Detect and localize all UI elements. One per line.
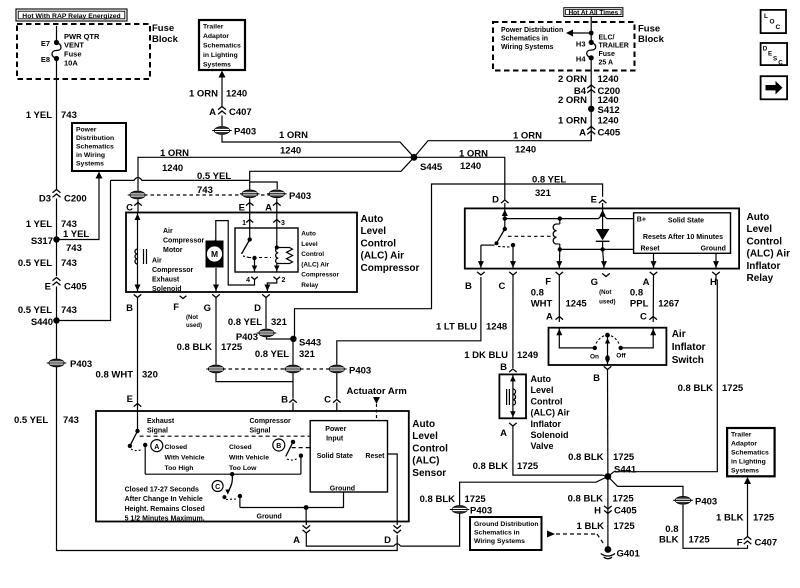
wire: fuse H4 down to 1 ORN bus corner [590, 58, 592, 141]
wire: 0.8 YEL 321 compressor D to P403 [265, 298, 267, 329]
reference arrow to power distribution (top-right) [566, 30, 591, 37]
svg-text:Air: Air [152, 258, 162, 265]
reference box: Trailer Adaptor Schematics in Lighting Systems (right) [727, 428, 775, 476]
svg-text:ELC/: ELC/ [599, 35, 615, 42]
value label 0.8 BLK 1725 (pin G) [177, 342, 243, 353]
svg-text:Air: Air [672, 329, 686, 340]
solid state box (inner, inflator relay) [634, 213, 731, 254]
svg-text:(Not: (Not [186, 315, 198, 321]
svg-text:Power Distribution: Power Distribution [501, 27, 563, 34]
wire arrow: 1 BLK 1725 to trailer adaptor reference [744, 477, 751, 537]
svg-text:A: A [546, 312, 553, 323]
splice P403 on sensor ground riser [450, 506, 492, 517]
value label 2 ORN 1240 (y99) [558, 95, 619, 106]
wire: sensor B column oval to sensor pin B [292, 374, 294, 399]
switch pin B (bottom) [593, 366, 611, 384]
svg-text:L: L [764, 13, 768, 20]
svg-text:Systems: Systems [731, 468, 759, 475]
label Closed With Vehicle Too High [165, 444, 205, 472]
value label 0.8 YEL 321 (S443 to sensor) [255, 349, 316, 360]
component box: ALC Air Inflator Solenoid Valve [499, 374, 526, 418]
actuator arm (dashed mechanical input) [347, 386, 407, 421]
svg-text:C: C [126, 203, 133, 214]
svg-text:Relay: Relay [747, 273, 774, 284]
sensor pin B (top) [281, 395, 297, 412]
label Auto Level Control (ALC) Sensor (outer) [412, 419, 448, 479]
svg-text:VENT: VENT [64, 41, 84, 50]
connector C200 pin D3 (left column) [39, 190, 87, 205]
svg-text:E: E [45, 282, 51, 293]
relay pin E (top) [591, 195, 607, 209]
inflator relay contact arm [481, 227, 515, 248]
svg-text:1725: 1725 [517, 461, 539, 472]
svg-text:1 BLK: 1 BLK [716, 513, 744, 524]
value label 2 ORN 1240 (y78) [558, 74, 619, 85]
node S445 [411, 154, 443, 173]
valve pin B (top) [500, 362, 517, 373]
svg-text:Signal: Signal [147, 428, 168, 435]
svg-text:WHT: WHT [531, 299, 553, 310]
node S317 [31, 236, 60, 247]
svg-text:P403: P403 [289, 191, 311, 202]
fuse block (dashed) top-left [17, 24, 150, 79]
svg-text:Trailer: Trailer [203, 24, 224, 31]
svg-text:H3: H3 [576, 40, 586, 49]
label Fuse Block (top-right) [638, 24, 665, 46]
icon box arrow (next page) [761, 76, 788, 99]
reference box: Ground Distribution Schematics in Wiring Systems [470, 517, 542, 550]
compressor pin G (bottom) [204, 294, 220, 314]
label Ground (solid state) [330, 486, 355, 493]
svg-text:P403: P403 [695, 497, 717, 508]
relay contact arm (compressor relay) [242, 228, 257, 260]
wire: 0.5 YEL rise into S445 from E column [250, 157, 414, 190]
icon box LOC [761, 10, 786, 33]
svg-text:A: A [643, 277, 650, 288]
switch pin C (air inflator switch) [640, 312, 657, 323]
svg-text:C: C [215, 484, 220, 491]
svg-text:A: A [154, 444, 159, 451]
dashed mechanical link (actuator to switches, upper) [140, 435, 311, 437]
splice P403 (trailer ground) [673, 496, 717, 507]
relay mechanical link (dashed) [248, 257, 271, 259]
svg-text:Schematics: Schematics [731, 450, 769, 457]
splice P403 oval on pin E column [240, 190, 260, 198]
svg-text:A: A [209, 107, 216, 118]
label Air Compressor Motor [163, 228, 205, 254]
svg-text:P403: P403 [470, 506, 492, 517]
svg-text:C: C [324, 395, 331, 406]
svg-text:1 ORN: 1 ORN [160, 148, 189, 159]
label Fuse Block (top-left) [152, 23, 179, 45]
svg-text:2 ORN: 2 ORN [558, 95, 587, 106]
svg-text:1725: 1725 [689, 535, 711, 546]
connector C407 pin A (top middle) [209, 107, 252, 119]
value label 0.8 YEL 321 (pin D) [228, 317, 288, 328]
value label 1 YEL 743 (y111) [26, 110, 77, 121]
label Resets After 10 Minutes [643, 233, 723, 241]
wire: relay pin B drop [478, 245, 484, 269]
wire: P403 to S443 [267, 338, 294, 340]
svg-text:Hot At All Times: Hot At All Times [568, 10, 618, 17]
svg-text:A: A [500, 428, 507, 439]
svg-text:1267: 1267 [658, 299, 679, 310]
svg-text:5 1/2 Minutes Maximum.: 5 1/2 Minutes Maximum. [125, 516, 205, 523]
svg-text:Actuator Arm: Actuator Arm [347, 386, 407, 397]
inflator relay pin G (bottom, not used) [591, 273, 616, 305]
svg-text:0.5 YEL: 0.5 YEL [18, 258, 52, 269]
wire: reset to pin D (inside sensor) [388, 454, 398, 522]
svg-text:0.8 BLK: 0.8 BLK [177, 342, 213, 353]
splice P403 (top middle) [212, 127, 256, 138]
value label 1 DK BLU 1249 [464, 350, 538, 361]
svg-text:743: 743 [61, 305, 77, 316]
wire: relay pin F drop [556, 249, 562, 268]
wire: motor top loop to relay pin 4 [215, 221, 255, 285]
svg-text:Control: Control [531, 396, 563, 406]
svg-text:Level: Level [301, 241, 318, 248]
wire: switch C to ground bus [239, 496, 241, 507]
value label 1 ORN 1240 (on y142 bus) [279, 130, 308, 157]
wire: S440 down through P403 to sensor pin D net [57, 321, 398, 551]
svg-text:Schematics in: Schematics in [501, 36, 548, 43]
splice P403 oval on pin A column [267, 190, 311, 202]
wire: 0.5 YEL 743 line to compressor pin E column (hop over pin C column) [111, 178, 250, 181]
svg-text:used): used) [599, 299, 616, 306]
label Auto Level Control (ALC) Air Inflator Relay (outer) [747, 212, 791, 284]
wire: S441 to ground G401 (0.8 BLK 1725) [607, 477, 609, 549]
connector C200 pin B4 (top-right) [574, 85, 620, 97]
motor M (air compressor motor) [206, 241, 224, 268]
wire: fuse block entry to fuse E7 [56, 26, 58, 43]
svg-text:(ALC): (ALC) [412, 456, 439, 467]
svg-text:Level: Level [361, 226, 387, 237]
svg-text:0.8 BLK: 0.8 BLK [420, 494, 456, 505]
svg-text:321: 321 [535, 188, 552, 199]
title box: Hot At All Times [564, 8, 623, 17]
svg-text:743: 743 [61, 110, 77, 121]
svg-text:1249: 1249 [517, 350, 538, 361]
svg-text:1725: 1725 [221, 342, 243, 353]
svg-text:1 ORN: 1 ORN [459, 149, 488, 160]
svg-text:E: E [239, 203, 245, 214]
svg-text:1 ORN: 1 ORN [558, 116, 587, 127]
svg-text:1725: 1725 [613, 452, 635, 463]
compressor pin A (top) [265, 198, 280, 213]
sensor switch C (timer contact) [222, 472, 242, 500]
label Air Compressor Exhaust Solenoid [152, 258, 194, 294]
wire: solid state ground bus to pin A [240, 492, 344, 522]
node S443 [290, 336, 321, 349]
wire: riser top to S441 bus [460, 477, 608, 506]
switch position marker circle A [151, 440, 163, 452]
wire: branch E column to pin A column [250, 182, 278, 189]
svg-text:1248: 1248 [486, 322, 507, 333]
switch position marker circle C [212, 481, 223, 492]
svg-text:1240: 1240 [598, 74, 619, 85]
svg-text:Compressor: Compressor [152, 267, 194, 274]
svg-text:1725: 1725 [614, 521, 636, 532]
inflator relay coil [553, 219, 560, 250]
wire: 1 YEL 743 fuse to C200 (left column) [56, 59, 58, 191]
svg-text:On: On [590, 354, 599, 361]
sensor pin D (bottom) [384, 522, 401, 547]
svg-text:S: S [773, 56, 777, 63]
svg-text:Control: Control [361, 238, 397, 249]
svg-text:Schematics: Schematics [76, 144, 114, 151]
svg-text:Motor: Motor [163, 247, 183, 254]
svg-text:(ALC) Air: (ALC) Air [361, 251, 405, 262]
wire: 0.8 WHT 320 compressor B to sensor E [137, 298, 139, 412]
compressor pin B (bottom) [126, 294, 141, 314]
svg-text:B: B [593, 373, 600, 384]
svg-text:Closed: Closed [165, 444, 188, 451]
svg-text:S440: S440 [31, 317, 53, 328]
svg-text:P403: P403 [236, 332, 258, 343]
value label 0.8 YEL 321 (relay feed) [532, 175, 566, 200]
value label 0.8 BLK 1725 (sensor ground riser) [420, 494, 487, 505]
wire: sensor pin A to ground net (hop at D) [306, 514, 459, 547]
value label 1 ORN 1240 (upper right bus) [513, 131, 542, 156]
svg-text:4: 4 [246, 277, 250, 284]
svg-text:0.8: 0.8 [531, 288, 544, 299]
svg-text:Power: Power [76, 127, 97, 134]
svg-text:(ALC) Air: (ALC) Air [747, 249, 791, 260]
svg-text:P403: P403 [349, 366, 371, 377]
svg-text:1 LT BLU: 1 LT BLU [436, 322, 477, 333]
reference box: Trailer Adaptor Schematics in Lighting Systems (top) [199, 20, 245, 70]
wire: S441 branch to P403 (trailer ground) [608, 477, 683, 497]
svg-text:in Lighting: in Lighting [203, 52, 238, 59]
svg-text:E8: E8 [41, 55, 50, 64]
svg-text:C407: C407 [229, 107, 252, 118]
svg-text:2 ORN: 2 ORN [558, 74, 587, 85]
relay pin 1 [242, 213, 253, 229]
svg-text:Power: Power [325, 426, 346, 433]
svg-text:1 ORN: 1 ORN [189, 89, 218, 100]
svg-text:1: 1 [242, 220, 246, 227]
component box: Auto Level Control (ALC) Air Compressor [126, 213, 357, 293]
label Auto Level Control (ALC) Air Compressor (outer) [361, 214, 420, 274]
relay pin D (top) [492, 195, 508, 209]
svg-text:1725: 1725 [722, 383, 744, 394]
svg-text:A: A [579, 128, 586, 139]
relay pin 4 [246, 258, 258, 284]
wire: relay pin G drop [601, 249, 607, 268]
svg-text:Hot With RAP Relay Energized: Hot With RAP Relay Energized [22, 13, 120, 20]
svg-text:(ALC) Air: (ALC) Air [531, 408, 571, 418]
svg-text:Auto: Auto [412, 419, 435, 430]
switch C contact (Off side) [616, 328, 656, 360]
svg-text:P403: P403 [234, 127, 256, 138]
svg-text:G401: G401 [617, 549, 641, 560]
node S441 [605, 465, 637, 480]
svg-text:F: F [545, 277, 551, 288]
value label 0.8 BLK 1725 (to G401) [568, 494, 635, 505]
wire: switch contacts common (A and B) [145, 473, 301, 475]
svg-text:P403: P403 [70, 359, 92, 370]
label Ground (sensor internal) [257, 514, 282, 521]
svg-text:0.8 BLK: 0.8 BLK [568, 452, 604, 463]
value label 0.8 BLK 1725 (switch B) [568, 452, 635, 463]
value label 1 ORN 1240 (left bus) [160, 148, 189, 174]
svg-text:G: G [204, 303, 211, 314]
svg-text:Compressor: Compressor [250, 418, 292, 425]
relay coil and resistor (parallel) [275, 228, 293, 264]
svg-text:Adaptor: Adaptor [731, 441, 757, 448]
wire: S445 up-right to fuse block column (1 ORN 1240) [414, 135, 591, 157]
svg-text:S317: S317 [31, 236, 53, 247]
svg-text:1 YEL: 1 YEL [26, 219, 52, 230]
svg-text:Height. Remains Closed: Height. Remains Closed [125, 506, 205, 513]
label Air Inflator Switch [672, 329, 706, 366]
sensor switch A (exhaust, closed vehicle too high) [128, 411, 148, 474]
svg-text:Block: Block [638, 34, 665, 45]
compressor pin E (top) [239, 198, 254, 213]
fuse PWR QTR VENT 10A (E7-E8) [41, 39, 61, 64]
connector C405 pin E (left column) [45, 278, 88, 293]
svg-text:A: A [293, 535, 300, 546]
label Auto Level Control (ALC) Air Inflator Solenoid Valve [531, 374, 571, 451]
svg-text:Valve: Valve [531, 441, 554, 451]
svg-text:Inflator: Inflator [672, 342, 706, 353]
svg-text:Auto: Auto [531, 374, 552, 384]
svg-text:Ground: Ground [701, 246, 726, 253]
switch position marker circle B [273, 439, 285, 451]
component box: Auto Level Control (ALC) Air Inflator Relay [465, 208, 739, 268]
svg-text:Systems: Systems [203, 62, 231, 69]
svg-text:H4: H4 [576, 55, 586, 64]
splice P403 on left column [47, 359, 92, 370]
inflator relay pin A (bottom) [643, 272, 658, 288]
label Solid State (inflator relay) [668, 218, 704, 225]
svg-text:1240: 1240 [598, 116, 619, 127]
svg-text:O: O [770, 19, 775, 26]
value label 0.5 YEL 743 (y259) [18, 258, 77, 269]
svg-text:1 ORN: 1 ORN [279, 130, 308, 141]
wire: 0.8 BLK 1725 valve A to S441 [513, 426, 608, 477]
svg-text:0.8: 0.8 [630, 288, 643, 299]
svg-text:D3: D3 [39, 194, 51, 205]
svg-text:Fuse: Fuse [64, 50, 82, 59]
svg-text:TRAILER: TRAILER [599, 43, 629, 50]
label Ground (inflator relay) [701, 246, 726, 253]
label ELC/TRAILER Fuse 25 A [599, 35, 629, 67]
svg-text:Schematics in: Schematics in [474, 530, 520, 537]
svg-text:E: E [591, 195, 597, 206]
compressor pin C (top) [126, 200, 142, 214]
svg-text:After Change In Vehicle: After Change In Vehicle [125, 496, 203, 503]
svg-text:Input: Input [326, 436, 344, 443]
splice P403 oval on pin G column [206, 365, 226, 373]
value label 0.8 WHT 320 [96, 370, 158, 381]
svg-text:1 ORN: 1 ORN [513, 131, 542, 142]
svg-text:B+: B+ [637, 217, 646, 224]
value label 0.5 YEL 743 (y419) [14, 415, 79, 426]
inflator relay pin F (bottom) [545, 272, 563, 288]
svg-text:B: B [500, 362, 507, 373]
label Exhaust Signal [147, 418, 175, 435]
svg-text:Auto: Auto [361, 214, 384, 225]
wire: relay feed branch to pin E [505, 184, 603, 197]
svg-text:1 BLK: 1 BLK [577, 521, 605, 532]
svg-text:1245: 1245 [566, 299, 588, 310]
sensor pin E (top) [127, 394, 142, 407]
label timer note Closed 17-27 Seconds [125, 487, 205, 523]
svg-text:1240: 1240 [515, 145, 536, 156]
wire: 1 ORN bus left segment to compressor pin C [138, 157, 414, 190]
dashed mechanical link (lower, to solid state) [292, 447, 311, 449]
svg-text:320: 320 [142, 370, 158, 381]
inflator relay mechanical link (dashed) [508, 235, 552, 237]
svg-text:in Wiring: in Wiring [76, 152, 105, 159]
svg-text:Sensor: Sensor [412, 468, 446, 479]
wire: 0.8 BLK 1725 P403 down and right to C407 [683, 505, 748, 549]
svg-text:Adaptor: Adaptor [203, 33, 229, 40]
sensor switch B (compressor, closed vehicle too low) [286, 440, 303, 475]
switch pin A (air inflator switch) [546, 312, 563, 323]
svg-text:Exhaust: Exhaust [147, 418, 175, 425]
wire: 0.8 BLK 1725 switch B to S441 [607, 370, 609, 477]
svg-text:321: 321 [271, 317, 288, 328]
wire: coil/diode common to solid state (inflator) [558, 247, 634, 251]
svg-text:1725: 1725 [753, 513, 775, 524]
wire: relay pin C drop [510, 245, 516, 269]
svg-text:0.8 BLK: 0.8 BLK [473, 461, 509, 472]
svg-text:Fuse: Fuse [638, 24, 660, 35]
svg-text:0.8 WHT: 0.8 WHT [96, 370, 134, 381]
value label 1 BLK 1725 (trailer) [716, 513, 775, 524]
wire: S443 down to sensor pin B [292, 339, 294, 365]
svg-text:Wiring Systems: Wiring Systems [501, 44, 554, 51]
svg-text:Level: Level [531, 385, 554, 395]
svg-text:Switch: Switch [672, 355, 704, 366]
svg-text:D: D [384, 535, 391, 546]
wire: relay pin H drop (ground) [713, 253, 719, 268]
switch toggle (center) [596, 333, 619, 365]
value label 1 LT BLU 1248 [436, 322, 507, 333]
svg-text:H: H [594, 506, 601, 517]
svg-text:Signal: Signal [250, 428, 271, 435]
svg-text:Level: Level [412, 431, 438, 442]
svg-text:743: 743 [61, 258, 77, 269]
svg-text:Solid State: Solid State [668, 218, 704, 225]
dashed reference arrow to G401 [547, 531, 605, 546]
svg-text:E7: E7 [41, 39, 50, 48]
label Power Input [325, 426, 346, 443]
svg-text:Ground: Ground [257, 514, 282, 521]
svg-text:0.8 YEL: 0.8 YEL [532, 175, 566, 186]
svg-text:Control: Control [412, 443, 448, 454]
svg-text:C: C [776, 24, 781, 31]
svg-text:Inflator: Inflator [747, 261, 781, 272]
wire: 0.8 BLK 1725 relay H to S441 [608, 275, 717, 477]
value label 0.8 BLK 1725 (trailer ground) [659, 524, 710, 546]
valve pin A (bottom) [500, 423, 517, 439]
icon box DESC [761, 43, 788, 67]
svg-text:321: 321 [299, 349, 316, 360]
svg-text:Solenoid: Solenoid [152, 286, 182, 293]
svg-text:E: E [127, 394, 133, 405]
svg-text:C405: C405 [598, 128, 621, 139]
svg-text:1 DK BLU: 1 DK BLU [464, 350, 508, 361]
value label 1 ORN 1240 (right of S445) [459, 149, 488, 173]
wire: 0.8 WHT 1245 relay F to switch A [558, 275, 560, 322]
component box: Auto Level Control (ALC) Sensor [96, 411, 409, 522]
svg-text:Too Low: Too Low [229, 465, 257, 472]
svg-text:Auto: Auto [747, 212, 770, 223]
solid state box (inner): power input / reset / ground [310, 421, 387, 492]
